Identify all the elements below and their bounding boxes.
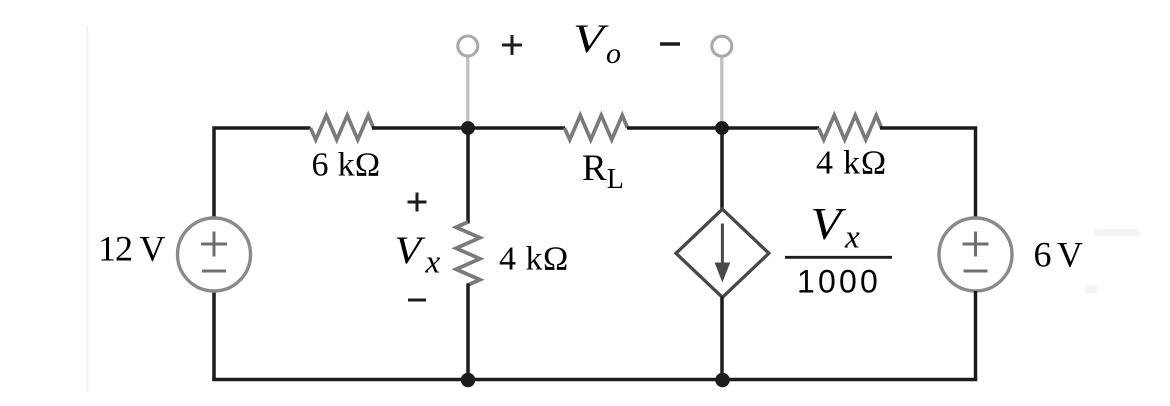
label minus sign of Vx bbox=[408, 299, 426, 302]
svg-text:6 kΩ: 6 kΩ bbox=[312, 146, 381, 183]
svg-text:12 V: 12 V bbox=[98, 229, 165, 269]
resistor R1 6 kOhm zigzag bbox=[311, 115, 374, 139]
svg-text:4 kΩ: 4 kΩ bbox=[499, 240, 569, 277]
wire dependent source down to bottom node D bbox=[720, 297, 724, 380]
node A junction dot bbox=[461, 121, 475, 135]
svg-text:V: V bbox=[395, 228, 427, 271]
svg-text:V: V bbox=[811, 199, 847, 249]
svg-text:4 kΩ: 4 kΩ bbox=[816, 144, 887, 181]
node D junction dot (bottom right) bbox=[715, 373, 730, 388]
svg-text:x: x bbox=[425, 245, 441, 281]
resistor R2 4 kOhm zigzag bbox=[819, 115, 882, 139]
label minus sign of Vo bbox=[660, 42, 680, 45]
scan artifact: faint vertical line on left bbox=[87, 25, 89, 392]
scan artifact: faint smudge below right bbox=[1084, 285, 1097, 293]
node C junction dot (bottom left) bbox=[461, 373, 476, 388]
wire stub terminal b down to node B (light gray) bbox=[720, 55, 723, 125]
wire from 6k resistor to node A bbox=[372, 126, 468, 130]
wire node B to 4k resistor bbox=[722, 126, 819, 130]
resistor R3 4 kOhm vertical zigzag bbox=[456, 222, 480, 285]
resistor RL zigzag bbox=[565, 115, 628, 139]
voltage source V2 6V bbox=[939, 218, 1012, 291]
node B junction dot bbox=[715, 121, 729, 135]
terminal b open circle bbox=[712, 36, 732, 56]
wire RL resistor to node B bbox=[627, 126, 722, 130]
wire top-left segment from 12V source up and right to 6k resistor bbox=[214, 128, 311, 220]
wire vertical 4k resistor down to bottom node C bbox=[466, 284, 470, 381]
svg-text:x: x bbox=[844, 220, 860, 256]
label plus sign of Vo bbox=[502, 35, 522, 55]
svg-text:6 V: 6 V bbox=[1034, 235, 1083, 275]
label Vx over 1000 (dependent source gain) bbox=[785, 199, 892, 299]
svg-text:RL: RL bbox=[582, 148, 624, 195]
svg-text:1000: 1000 bbox=[797, 264, 881, 300]
wire node A down to vertical 4k resistor bbox=[466, 128, 470, 224]
dependent current source I1 (diamond with downward arrow) bbox=[676, 209, 769, 297]
wire node A to RL resistor bbox=[468, 126, 566, 130]
wire 4k resistor right to corner and down to 6V source bbox=[880, 128, 976, 220]
voltage source V1 12V bbox=[178, 218, 251, 291]
scan artifact: faint smudge right of 6V bbox=[1094, 229, 1140, 236]
wire bottom-left corner up to 12V source bbox=[212, 291, 216, 380]
wire bottom rail bbox=[212, 378, 977, 382]
label plus sign of Vx bbox=[408, 193, 427, 212]
wire stub terminal a down to node A (light gray) bbox=[466, 55, 469, 125]
svg-text:o: o bbox=[606, 37, 621, 70]
terminal a open circle bbox=[458, 36, 478, 56]
wire node B down to dependent source bbox=[720, 128, 724, 210]
svg-text:V: V bbox=[573, 16, 610, 61]
wire 6V source down to bottom-right corner bbox=[974, 291, 978, 380]
